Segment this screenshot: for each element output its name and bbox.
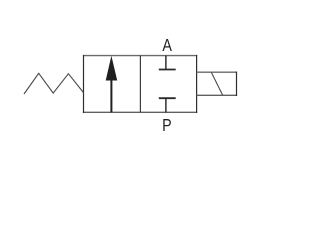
svg-text:P: P: [162, 115, 172, 135]
position divider line: [139, 56, 141, 113]
port A closed-port stub: [165, 56, 167, 70]
return spring: [24, 73, 84, 94]
port P closed-port stub: [165, 98, 167, 112]
flow arrow shaft (left position): [110, 79, 112, 112]
solenoid actuator box bottom edge: [197, 94, 238, 96]
solenoid diagonal coil line: [211, 72, 222, 95]
svg-text:A: A: [162, 35, 172, 55]
valve body left edge: [83, 55, 85, 113]
flow arrow head: [106, 56, 118, 81]
valve body right edge: [196, 55, 198, 113]
solenoid actuator box right edge: [236, 72, 238, 97]
solenoid actuator box top edge: [197, 71, 238, 73]
port P blocking bar: [159, 97, 176, 99]
port A blocking bar: [159, 69, 176, 71]
valve body top edge: [83, 55, 197, 57]
valve body bottom edge: [83, 111, 197, 113]
